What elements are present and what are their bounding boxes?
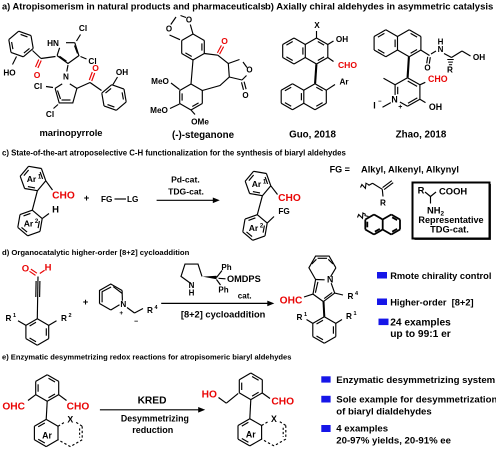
Guo biaryl bond: [315, 64, 316, 83]
svg-text:R: R: [348, 292, 354, 301]
svg-text:4 examples: 4 examples: [336, 423, 388, 434]
Zhao amide C=O: [421, 50, 431, 72]
TDG box caption: [418, 215, 483, 234]
svg-text:+: +: [84, 193, 90, 204]
product e biaryl bond: [250, 400, 251, 419]
marinopyrrole Cl bottom: [46, 105, 58, 120]
svg-text:24 examples: 24 examples: [390, 318, 451, 329]
svg-text:KRED: KRED: [138, 396, 167, 407]
label Zhao 2018: [396, 130, 447, 141]
svg-text:20-97% yields, 20-91% ee: 20-97% yields, 20-91% ee: [336, 436, 451, 447]
svg-text:−: −: [378, 99, 382, 105]
bullet d2: [377, 297, 474, 307]
header b: [265, 2, 493, 13]
ynal aldehyde red: [22, 263, 52, 276]
svg-text:H: H: [52, 205, 59, 216]
indolizine pyrrole ring: [313, 280, 335, 302]
svg-text:TDG-cat.: TDG-cat.: [430, 224, 469, 234]
marinopyrrole right carbonyl: [77, 63, 102, 91]
marinopyrrole bottom pyrrole ring: [55, 84, 77, 103]
svg-text:Ar: Ar: [339, 78, 349, 87]
header c: [2, 149, 347, 158]
indolizine benzene: [313, 302, 336, 344]
steganone MeO top: [151, 77, 179, 90]
svg-text:Higher-order [8+2]: Higher-order [8+2]: [390, 297, 473, 307]
svg-text:reduction: reduction: [132, 425, 173, 435]
steganone biaryl bond: [191, 60, 193, 84]
svg-text:COOH: COOH: [439, 186, 467, 197]
svg-text:O: O: [246, 66, 252, 75]
svg-text:Desymmetrizing: Desymmetrizing: [121, 414, 189, 424]
svg-text:Ar: Ar: [27, 174, 37, 184]
bullet e2: [321, 395, 496, 418]
steganone ketone C=O: [204, 36, 228, 55]
svg-text:Ph: Ph: [221, 263, 231, 272]
reactant e top benzene: [36, 375, 59, 402]
svg-text:FG: FG: [278, 207, 289, 216]
Zhao CHO: [420, 74, 448, 85]
bullet e3: [321, 423, 451, 446]
naphthyl example fragment: [358, 213, 401, 235]
Zhao N-methyl and iodide: [373, 99, 391, 111]
svg-text:R: R: [147, 306, 153, 315]
label Guo 2018: [289, 130, 336, 141]
marinopyrrole central N: [63, 65, 69, 82]
reactant c C-H bond: [42, 205, 59, 219]
svg-text:a) Atropisomerism in natural p: a) Atropisomerism in natural products an…: [2, 2, 266, 12]
svg-text:1: 1: [13, 313, 16, 319]
svg-text:CHO: CHO: [52, 191, 75, 202]
svg-text:OHC: OHC: [2, 402, 25, 413]
reactant e CHO right: [59, 395, 90, 413]
svg-text:O: O: [424, 64, 430, 73]
svg-text:LG: LG: [127, 195, 138, 204]
ylide CH2-R4: [127, 305, 158, 326]
svg-text:−: −: [134, 319, 138, 326]
product c bottom ring Ar2: [243, 215, 267, 241]
Guo CHO: [328, 58, 358, 71]
svg-text:Pd-cat.: Pd-cat.: [171, 175, 200, 185]
svg-text:cat.: cat.: [238, 292, 252, 301]
svg-text:Ar: Ar: [249, 223, 259, 233]
reactant e naphthalene Ar: [34, 419, 58, 446]
svg-text:R: R: [380, 199, 386, 208]
svg-text:R: R: [418, 185, 425, 196]
product c top ring Ar1: [245, 171, 271, 195]
svg-text:R: R: [297, 313, 303, 322]
ynal triple bond: [36, 277, 40, 319]
svg-text:OMe: OMe: [191, 118, 209, 127]
svg-text:CHO: CHO: [338, 60, 357, 70]
product c biaryl bond: [257, 196, 262, 215]
svg-text:O: O: [166, 25, 172, 34]
svg-text:Ar: Ar: [24, 219, 34, 229]
svg-text:OH: OH: [473, 53, 485, 62]
svg-text:up to 99:1 er: up to 99:1 er: [390, 329, 451, 340]
header e: [2, 353, 291, 362]
steganone top benzene: [182, 34, 205, 60]
svg-text:OHC: OHC: [280, 296, 303, 307]
label marinopyrrole: [39, 127, 102, 138]
FG equals text: [330, 165, 459, 175]
svg-text:MeO: MeO: [150, 106, 168, 115]
Zhao chain C-R stereocenter: [444, 54, 454, 75]
steganone MeO bottom: [150, 104, 179, 115]
svg-text:O: O: [92, 63, 99, 73]
svg-text:N: N: [63, 73, 69, 82]
TDG box NH2: [427, 205, 445, 218]
svg-text:HN: HN: [47, 39, 59, 48]
svg-text:O: O: [22, 264, 29, 275]
svg-text:O: O: [34, 70, 41, 80]
product e dashed ring X: [262, 414, 286, 446]
steganone eight-membered ring: [202, 55, 229, 90]
marinopyrrole Cl right: [81, 57, 97, 67]
svg-text:[8+2] cycloaddition: [8+2] cycloaddition: [181, 310, 266, 320]
svg-text:R: R: [6, 314, 12, 323]
marinopyrrole Cl left: [34, 82, 53, 91]
label steganone: [172, 130, 235, 141]
marinopyrrole OH label: [113, 68, 128, 85]
plus sign d: [83, 297, 89, 308]
Guo top naphthalene: [283, 38, 328, 64]
svg-text:+: +: [398, 104, 402, 111]
marinopyrrole left carbonyl: [33, 51, 56, 81]
reactant c biaryl bond: [32, 191, 37, 211]
svg-text:c) State-of-the-art atroposele: c) State-of-the-art atroposelective C-H …: [2, 149, 347, 158]
marinopyrrole HO label: [3, 57, 16, 78]
svg-text:b) Axially chiral aldehydes in: b) Axially chiral aldehydes in asymmetri…: [265, 2, 493, 13]
steganone lactone ring: [228, 60, 252, 101]
Zhao 2-methyl: [384, 78, 396, 85]
arrow d: [161, 301, 274, 320]
svg-text:Cl: Cl: [79, 24, 87, 33]
steganone dioxole ring: [166, 16, 193, 40]
steganone OMe: [191, 110, 209, 127]
svg-text:NH: NH: [427, 205, 441, 216]
svg-text:Cl: Cl: [46, 110, 54, 119]
svg-text:H: H: [45, 263, 52, 274]
product e CHO: [262, 393, 294, 408]
bullet e1: [321, 375, 495, 386]
product e HO-CH2: [202, 390, 239, 404]
svg-text:Ar: Ar: [246, 430, 256, 440]
catalyst pyrrolidine: [181, 264, 202, 297]
svg-text:Zhao, 2018: Zhao, 2018: [396, 130, 447, 141]
FG-LG reagent: [101, 195, 138, 204]
svg-text:O: O: [242, 91, 248, 100]
svg-text:Ar: Ar: [42, 430, 52, 440]
svg-text:marinopyrrole: marinopyrrole: [39, 127, 102, 138]
indolizine OHC red: [280, 294, 313, 306]
Zhao pyridinium ring: [391, 78, 420, 111]
reactant c CHO: [46, 181, 75, 202]
marinopyrrole Cl top: [77, 24, 88, 41]
Guo bottom naphthalene: [281, 84, 326, 110]
Guo OH: [328, 35, 348, 45]
svg-text:FG: FG: [101, 195, 112, 204]
svg-text:+: +: [119, 310, 123, 317]
reactant e biaryl bond: [46, 401, 47, 419]
svg-text:of biaryl dialdehydes: of biaryl dialdehydes: [336, 406, 431, 417]
svg-text:e) Enzymatic desymmetrizing re: e) Enzymatic desymmetrizing redox reacti…: [2, 353, 291, 362]
marinopyrrole phenol ring top-left: [9, 31, 33, 57]
Zhao biaryl bond: [408, 57, 409, 78]
steganone bottom benzene: [180, 84, 203, 110]
svg-text:OH: OH: [116, 68, 128, 77]
reactant e OHC left: [2, 395, 35, 413]
svg-text:I: I: [373, 101, 375, 111]
product c FG: [267, 207, 289, 223]
svg-text:CHO: CHO: [428, 74, 448, 84]
header a: [2, 2, 266, 12]
marinopyrrole top pyrrole ring: [57, 43, 79, 64]
TDG box: [413, 183, 491, 240]
product e top benzene: [239, 373, 262, 400]
svg-text:Cl: Cl: [34, 82, 42, 91]
header d: [2, 248, 190, 257]
plus sign c: [84, 193, 90, 204]
svg-text:Alkyl, Alkenyl, Alkynyl: Alkyl, Alkenyl, Alkynyl: [361, 165, 459, 175]
svg-text:1: 1: [304, 312, 307, 318]
svg-text:Sole example for desymmetrizat: Sole example for desymmetrization: [336, 395, 496, 406]
svg-text:FG =: FG =: [330, 165, 350, 175]
Zhao CH2-OH: [452, 51, 486, 62]
product c CHO: [271, 186, 301, 204]
svg-text:CHO: CHO: [278, 193, 301, 204]
svg-text:O: O: [186, 16, 192, 25]
indolizine R1 right: [336, 311, 357, 323]
svg-text:Ph: Ph: [218, 286, 228, 295]
svg-text:H: H: [189, 289, 195, 298]
svg-text:HO: HO: [3, 69, 16, 78]
Guo X substituent: [314, 21, 320, 38]
pyridinium ylide ring: [100, 284, 127, 317]
reactant e dashed ring X: [58, 415, 82, 447]
svg-text:CHO: CHO: [271, 397, 294, 408]
svg-text:+: +: [83, 297, 89, 308]
svg-text:OH: OH: [336, 35, 348, 44]
svg-text:X: X: [67, 415, 73, 425]
TDG box amino acid R-COOH: [418, 185, 468, 204]
svg-text:OMDPS: OMDPS: [227, 274, 261, 284]
indolizine R4: [335, 291, 359, 301]
svg-text:CHO: CHO: [67, 402, 90, 413]
svg-text:R: R: [447, 66, 453, 75]
ynal benzene R1 R2: [6, 313, 72, 345]
svg-text:X: X: [271, 414, 277, 424]
indolizine R1 left: [297, 312, 313, 323]
reactant c top ring Ar1: [20, 166, 46, 190]
svg-text:Enzymatic desymmetrizing syste: Enzymatic desymmetrizing system: [336, 375, 495, 386]
Zhao amide N-H: [431, 38, 444, 55]
bullet d1: [377, 271, 491, 281]
svg-text:N: N: [391, 95, 397, 105]
svg-text:(-)-steganone: (-)-steganone: [172, 130, 235, 141]
catalyst wedge and substituents: [203, 263, 261, 301]
svg-text:1: 1: [353, 311, 356, 317]
bullet d3: [379, 318, 452, 340]
svg-text:Ar: Ar: [252, 179, 262, 189]
product e naphthalene Ar: [238, 419, 262, 446]
svg-text:X: X: [314, 21, 320, 30]
svg-text:Rmote chirality control: Rmote chirality control: [390, 271, 491, 281]
svg-text:2: 2: [68, 313, 71, 319]
svg-text:R: R: [61, 314, 67, 323]
svg-text:d) Organocatalytic higher-orde: d) Organocatalytic higher-order [8+2] cy…: [2, 248, 190, 257]
svg-text:N: N: [120, 300, 126, 309]
svg-text:TDG-cat.: TDG-cat.: [168, 187, 204, 197]
svg-text:MeO: MeO: [151, 77, 169, 86]
reactant c bottom ring Ar2: [18, 210, 42, 236]
Zhao OH: [420, 99, 442, 112]
arrow e KRED: [100, 396, 205, 436]
allyl example fragment: [361, 181, 394, 208]
svg-text:H: H: [438, 38, 444, 47]
Zhao naphthalene: [374, 30, 421, 57]
svg-text:R: R: [346, 312, 352, 321]
Guo Ar substituent: [326, 78, 349, 91]
marinopyrrole phenol ring bottom-right: [102, 85, 126, 111]
svg-text:O: O: [221, 36, 228, 46]
arrow c with Pd-cat TDG-cat: [157, 175, 220, 204]
indolizine pyridine ring: [309, 256, 336, 284]
svg-text:N: N: [327, 275, 333, 285]
marinopyrrole HN label: [47, 39, 59, 48]
svg-text:OH: OH: [429, 102, 442, 112]
svg-text:Guo, 2018: Guo, 2018: [289, 130, 336, 141]
svg-text:HO: HO: [202, 390, 217, 401]
